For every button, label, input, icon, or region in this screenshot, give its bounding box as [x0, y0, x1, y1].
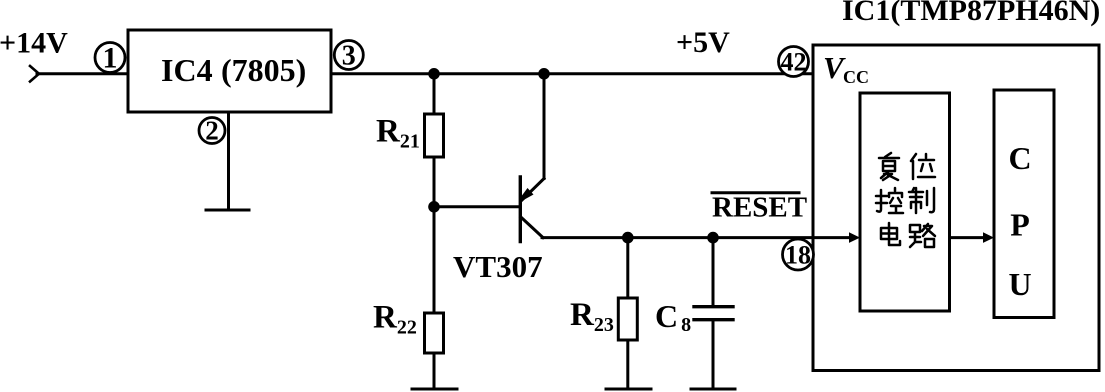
svg-text:(7805): (7805) — [221, 52, 306, 88]
ground (R22) — [412, 388, 457, 391]
pin 2 circle — [199, 118, 225, 144]
char zhi — [909, 188, 934, 213]
wire R21 bottom to node — [433, 157, 436, 313]
RESET overline — [712, 191, 799, 194]
node junction dot R23 — [622, 232, 634, 244]
wire C8 top — [712, 238, 715, 307]
ground (R23) — [606, 388, 651, 391]
svg-text:3: 3 — [342, 41, 356, 72]
pin 1 circle — [95, 43, 125, 73]
capacitor C8 — [694, 305, 733, 308]
wire C8 bottom — [712, 320, 715, 389]
transistor Q VT307 — [519, 177, 544, 242]
wire IC4 pin2 down — [227, 112, 230, 210]
wire R22 bottom — [433, 353, 436, 389]
node input arrow +14V — [30, 66, 39, 82]
node junction dot base divider — [428, 201, 440, 213]
wire base of VT307 — [434, 205, 520, 208]
pin 3 circle — [334, 41, 363, 70]
svg-text:CC: CC — [843, 67, 869, 87]
label reset control circuit (hand-drawn CJK) — [876, 153, 935, 247]
resistor R23 — [618, 298, 637, 340]
svg-text:P: P — [1010, 207, 1030, 243]
CPU block box — [994, 90, 1054, 318]
svg-text:2: 2 — [205, 116, 219, 146]
node arrow into reset box — [849, 232, 860, 243]
wire collector VT307 from +5V rail — [543, 74, 546, 179]
svg-text:1: 1 — [103, 42, 118, 75]
node junction dot rail-collector — [538, 68, 550, 80]
resistor R21 — [425, 114, 444, 157]
svg-text:RESET: RESET — [712, 192, 807, 224]
svg-text:VT307: VT307 — [453, 249, 543, 284]
reset control block box — [860, 93, 950, 311]
char fu — [879, 153, 899, 180]
char dian — [881, 223, 900, 245]
svg-text:C: C — [1008, 140, 1031, 176]
wire reset box to CPU — [950, 236, 987, 239]
wire R21 top — [433, 74, 436, 115]
wire R23 bottom — [626, 340, 629, 389]
node arrow into CPU — [983, 232, 994, 243]
pin 42 circle — [779, 47, 809, 77]
svg-text:+5V: +5V — [676, 26, 730, 59]
svg-text:18: 18 — [785, 241, 811, 270]
wire R23 top — [626, 238, 629, 299]
svg-text:U: U — [1008, 266, 1031, 302]
ground (C8) — [691, 388, 735, 391]
node junction dot C8 — [707, 232, 719, 244]
pin 18 circle — [783, 239, 814, 270]
svg-text:IC4: IC4 — [161, 52, 213, 88]
IC4 U1 regulator box — [128, 30, 331, 112]
IC1 microcontroller box — [813, 45, 1099, 371]
wire emitter VT307 to RESET line — [542, 236, 852, 239]
wire IC4 pin3 to IC1 pin42 (+5V rail) — [331, 72, 813, 75]
char kong — [876, 188, 903, 213]
ground (IC4 pin2) — [206, 209, 249, 212]
char lu — [910, 224, 935, 247]
wire input to IC4 pin1 — [37, 72, 128, 75]
resistor R22 — [425, 313, 444, 353]
node junction dot rail-R21 — [428, 68, 440, 80]
svg-text:+14V: +14V — [0, 27, 68, 60]
char wei — [911, 154, 935, 179]
svg-text:IC1(TMP87PH46N): IC1(TMP87PH46N) — [842, 0, 1100, 27]
svg-text:42: 42 — [781, 48, 807, 77]
